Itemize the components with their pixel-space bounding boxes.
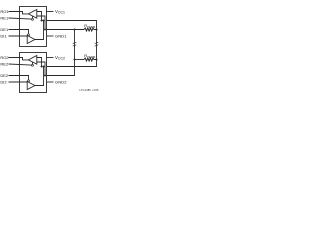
svg-text:RE2: RE2: [0, 62, 9, 67]
node U2 pin A receiver junction: [41, 66, 43, 68]
svg-text:RO2: RO2: [0, 55, 9, 60]
node U2 pin A driver junction: [43, 66, 45, 68]
driver U1B triangle: [27, 36, 35, 44]
node U1 pin A receiver junction: [41, 20, 43, 22]
svg-text:DE2: DE2: [0, 73, 9, 78]
receiver U1A triangle: [28, 10, 36, 19]
wire RO2: [9, 58, 29, 60]
node bus B RT2 junction: [74, 59, 76, 61]
svg-text:GND1: GND1: [55, 34, 67, 39]
wire bus line B chip1: [47, 29, 85, 31]
resistor RT2: [84, 58, 97, 61]
svg-text:RTERM: RTERM: [84, 23, 96, 29]
node bus B RT1 junction: [74, 29, 76, 31]
wire U1 receiver input B: [37, 16, 45, 30]
node U1 pin A driver junction: [43, 20, 45, 22]
receiver U2A triangle: [28, 56, 36, 65]
break mark bus B: [73, 42, 77, 46]
driver U2B triangle: [27, 82, 35, 90]
break mark bus A: [95, 42, 99, 46]
resistor RT1: [84, 28, 97, 31]
wire RO1: [9, 12, 29, 14]
wire GND1 stub: [47, 35, 54, 37]
svg-text:RE1: RE1: [0, 16, 9, 21]
svg-text:RTERM: RTERM: [84, 53, 96, 59]
node bus A RT2 junction: [96, 59, 98, 61]
wire RT2 left lead: [75, 59, 85, 61]
receiver U1A enable bubble: [32, 18, 34, 20]
svg-text:GND2: GND2: [55, 80, 67, 85]
svg-text:DI1: DI1: [0, 34, 7, 39]
wire VCC2 stub: [47, 57, 54, 59]
svg-text:VCC1: VCC1: [55, 9, 65, 15]
node U1 pin B junction: [44, 29, 46, 31]
svg-text:VCC2: VCC2: [55, 55, 65, 61]
wire bus line B vertical: [47, 30, 75, 76]
wire DE2: [9, 76, 29, 80]
svg-text:DI2: DI2: [0, 80, 7, 85]
receiver U2A enable bubble: [32, 64, 34, 66]
wire U2 receiver input A: [37, 58, 42, 67]
driver U2B enable bubble: [28, 80, 30, 82]
svg-text:RO1: RO1: [0, 9, 9, 14]
IC U1 box: [20, 7, 47, 47]
wire RE2: [9, 62, 33, 65]
wire bus line A: [47, 21, 97, 67]
svg-text:LTC1485 • F05: LTC1485 • F05: [80, 89, 99, 92]
wire U1 receiver input A: [37, 12, 42, 21]
wire U2 receiver input B: [37, 62, 45, 76]
driver U1B enable bubble: [28, 34, 30, 36]
node bus A RT1 junction: [96, 29, 98, 31]
wire U2 driver output: [35, 67, 44, 86]
wire DI2: [9, 81, 28, 83]
wire GND2 stub: [47, 81, 54, 83]
wire VCC1 stub: [47, 11, 54, 13]
wire U1 driver output: [35, 21, 44, 40]
node U2 pin B junction: [44, 75, 46, 77]
wire DE1: [9, 30, 29, 34]
svg-text:DE1: DE1: [0, 27, 9, 32]
IC U2 box: [20, 53, 47, 93]
wire DI1: [9, 35, 28, 37]
wire RE1: [9, 16, 33, 19]
